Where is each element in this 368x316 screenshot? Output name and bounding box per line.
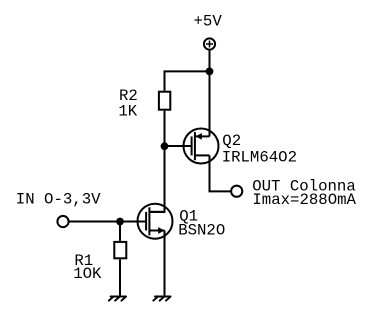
svg-text:IRLM64O2: IRLM64O2 [222,148,297,166]
transistor Q1 [138,204,173,239]
wire Q1 source to ground [164,231,166,296]
wire junction to R2 top [165,71,210,90]
wire Q2 drain to OUT [210,155,232,191]
wire R1 bottom to ground [119,259,121,295]
resistor R2 [159,92,170,110]
terminal IN [57,216,68,227]
svg-text:+5V: +5V [194,12,223,30]
wire input junction to R1 [119,222,121,241]
node supply junction [206,68,214,76]
ground under R1 [109,297,126,301]
wire IN to Q1 gate [69,221,147,223]
node input junction [116,218,124,226]
node gate junction [161,142,169,150]
resistor R1 [114,242,126,258]
svg-text:IN O-3,3V: IN O-3,3V [16,190,101,208]
transistor Q2 [184,129,219,164]
terminal +5V [204,38,215,49]
svg-text:1K: 1K [118,102,137,120]
wire +5V supply rail vertical [209,51,211,137]
wire gate lead Q2 [165,145,192,147]
svg-text:BSN2O: BSN2O [178,222,225,240]
wire R2 bottom to Q1 drain [149,111,164,212]
terminal OUT [231,186,242,197]
svg-text:1OK: 1OK [73,265,102,283]
ground under Q1 source [153,297,170,301]
svg-text:Imax=288OmA: Imax=288OmA [252,191,356,209]
